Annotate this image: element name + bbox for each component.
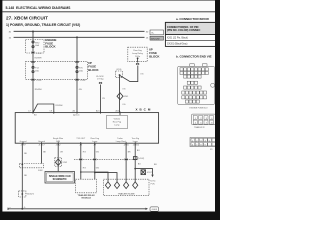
svg-text:TXD OUT: TXD OUT (76, 138, 86, 140)
svg-text:Lamp: Lamp (92, 141, 98, 143)
svg-text:Lamp Relay,: Lamp Relay, (132, 53, 144, 55)
svg-text:HG: HG (83, 168, 86, 170)
svg-text:1/7 Sys: 1/7 Sys (97, 79, 104, 81)
svg-text:To/Tw: To/Tw (150, 181, 156, 183)
svg-text:J1 B17: J1 B17 (38, 145, 45, 147)
svg-text:J/C05: J/C05 (116, 69, 122, 71)
svg-text:C-901: C-901 (36, 80, 42, 82)
svg-text:a. CONNECTOR INFOR: a. CONNECTOR INFOR (176, 17, 210, 21)
svg-text:SCHEMATIC: SCHEMATIC (53, 178, 67, 181)
svg-text:Ground: Ground (20, 141, 27, 143)
svg-text:BLOCK: BLOCK (149, 54, 160, 58)
svg-text:J/C07: J/C07 (147, 172, 153, 174)
svg-text:RD/WH: RD/WH (56, 105, 63, 107)
svg-text:RD/WH: RD/WH (35, 57, 42, 59)
svg-text:OG: OG (140, 74, 144, 76)
svg-text:GX201 (Black/Gray): GX201 (Black/Gray) (167, 43, 188, 46)
svg-text:CAN: CAN (56, 140, 61, 143)
svg-text:Rear Fog: Rear Fog (113, 121, 121, 123)
svg-text:C-901: C-901 (80, 80, 86, 82)
svg-text:TRAILER INLINE: TRAILER INLINE (118, 193, 135, 196)
svg-text:5-148 ELECTRICAL WIRING DIAGR: 5-148 ELECTRICAL WIRING DIAGRAMS (6, 6, 72, 10)
svg-text:Rear Fog: Rear Fog (91, 138, 99, 140)
svg-text:(5-502): (5-502) (138, 158, 145, 160)
svg-text:Vehicle: Vehicle (114, 118, 121, 120)
svg-text:b. CONNECTOR END VIE: b. CONNECTOR END VIE (176, 55, 212, 59)
svg-text:MODULE: MODULE (81, 197, 91, 199)
svg-text:Turn Sig: Turn Sig (131, 138, 138, 140)
svg-text:(PIN NO. COLOR) CONNEC: (PIN NO. COLOR) CONNEC (167, 28, 201, 32)
svg-text:Lamp: Lamp (114, 124, 120, 126)
svg-text:x: x (10, 207, 11, 209)
svg-text:Single Wire: Single Wire (53, 138, 64, 140)
svg-text:HG: HG (83, 151, 86, 153)
svg-text:IGN S/W: IGN S/W (151, 38, 161, 40)
svg-text:J2 B1: J2 B1 (124, 145, 130, 147)
svg-text:ENGINE FUSE BLO: ENGINE FUSE BLO (190, 107, 209, 109)
svg-text:TRAILER RELAY: TRAILER RELAY (78, 194, 96, 197)
svg-text:G303: G303 (152, 209, 158, 211)
svg-text:Lamp: Lamp (133, 141, 139, 143)
svg-text:TRAILER R: TRAILER R (194, 126, 205, 129)
svg-text:X201 (22 Pin, Black): X201 (22 Pin, Black) (167, 38, 188, 40)
svg-text:J1 B7: J1 B7 (20, 145, 26, 147)
svg-text:G401(?): G401(?) (27, 193, 35, 195)
svg-text:Ground: Ground (38, 141, 45, 143)
svg-text:XBCM: XBCM (136, 107, 153, 111)
svg-text:Lamp Flash: Lamp Flash (116, 141, 126, 143)
svg-text:OG: OG (122, 88, 126, 90)
svg-text:C-102: C-102 (36, 53, 42, 55)
svg-text:Ignition: Ignition (73, 113, 79, 116)
svg-text:J2 B10: J2 B10 (133, 145, 140, 147)
svg-text:FLR.: FLR. (151, 183, 156, 185)
svg-text:RD/WH: RD/WH (35, 89, 42, 91)
svg-text:BLOCK: BLOCK (88, 68, 99, 72)
svg-text:27. XBCM CIRCUIT: 27. XBCM CIRCUIT (6, 16, 48, 21)
svg-text:Trailer: Trailer (117, 138, 123, 140)
svg-text:OG: OG (122, 104, 126, 106)
svg-text:1) POWER, GROUND, TRAILER CIRC: 1) POWER, GROUND, TRAILER CIRCUIT (V92) (6, 23, 80, 27)
svg-text:Rear Fog: Rear Fog (133, 50, 141, 52)
svg-text:BLOCK: BLOCK (45, 45, 56, 49)
